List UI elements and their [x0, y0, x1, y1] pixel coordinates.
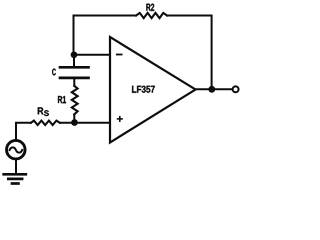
resistor RS: [31, 121, 60, 125]
output terminal: [233, 86, 239, 92]
wire output: [196, 88, 233, 90]
label C: [52, 69, 56, 76]
wire RS to non-inverting input: [60, 122, 110, 124]
node B: non-inverting input junction: [71, 119, 78, 126]
op-amp inverting pin mark: [117, 54, 122, 56]
resistor R2: [136, 13, 167, 18]
wire R1 to node B: [73, 114, 75, 122]
wire inverting input: [74, 54, 110, 56]
wire feedback top-left segment: [74, 16, 137, 56]
wire capacitor to R1: [73, 78, 75, 86]
node C: output junction: [208, 86, 215, 93]
op-amp non-inverting pin mark: [118, 117, 122, 121]
node A: inverting input junction: [71, 51, 78, 58]
wire source to RS: [16, 123, 31, 141]
wire feedback top-right segment: [167, 16, 212, 90]
wire node A to capacitor: [73, 55, 75, 68]
label R1: [58, 96, 66, 103]
resistor R1: [72, 86, 78, 115]
AC source: [7, 140, 26, 159]
label LF357: [132, 86, 155, 93]
ground: [4, 174, 26, 183]
label RS: [38, 107, 49, 116]
label R2: [146, 4, 154, 11]
op-amp U1 LF357: [110, 37, 196, 143]
capacitor C: [60, 67, 89, 78]
wire source to ground: [15, 159, 17, 174]
